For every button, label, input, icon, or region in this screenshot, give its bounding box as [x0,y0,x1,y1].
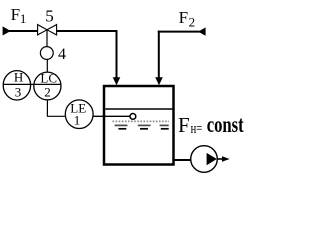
svg-text:F: F [179,8,188,27]
wire: actuator 4 to controller LC [46,59,48,72]
label 1 [74,113,81,128]
wire: pipe F1 vertical drop to tank [116,30,118,79]
dotted level line [113,120,170,122]
svg-text:1: 1 [20,11,27,26]
label LC [40,70,57,85]
svg-text:4: 4 [58,46,66,63]
wire: pipe F1 horizontal (valve to corner) [57,30,118,32]
svg-text:F: F [178,113,190,137]
arrow F2 into tank [155,77,163,85]
wire: LE to sensor inside tank [93,115,130,117]
label F1 [11,5,27,26]
outflow arrow [222,156,230,162]
svg-text:2: 2 [189,15,196,30]
label 3 [15,85,21,100]
wire: pipe F2 horizontal [158,31,200,33]
label 2 [44,84,51,99]
label F2 [179,8,196,30]
svg-text:2: 2 [44,84,51,99]
svg-text:LC: LC [40,70,57,85]
label H [14,70,23,85]
svg-text:const: const [207,112,244,137]
pump impeller triangle [207,153,217,165]
wire: pipe F1 horizontal (left of valve) [9,30,38,32]
instrument H/3 (circle) [3,71,30,100]
pump (circle) [191,146,218,173]
wire: pump outlet line [217,158,223,160]
wire: LC to LE (down and right) [47,100,65,117]
wire: valve stem to actuator 4 [46,30,48,47]
level element LE/1 (circle) [65,100,93,129]
level dashes row 2 [118,128,168,130]
svg-text:1: 1 [74,113,81,128]
label 5 [45,7,54,26]
actuator circle 4 [40,47,53,60]
svg-text:F: F [11,5,20,24]
instrument LC/2 (circle) [34,72,61,100]
wire: tank outlet pipe [174,159,192,161]
svg-text:H: H [14,70,23,85]
flow arrow into pipe F2 [198,27,206,35]
flow arrow into pipe F1 [3,26,11,35]
label 4 [58,46,66,63]
divider line through H and LC circles [3,83,61,85]
wire: pipe F2 vertical drop to tank [158,31,160,79]
label LE [70,101,86,116]
svg-text:5: 5 [45,7,54,26]
level dashes row 1 [115,124,169,126]
arrow F1 into tank [113,77,121,85]
svg-text:3: 3 [15,85,21,100]
liquid surface line [105,108,174,110]
tank [104,86,174,165]
svg-text:н=: н= [191,121,203,137]
sensor float (small circle in tank) [130,114,136,120]
label Fн= const [178,112,244,137]
valve 5 [38,25,57,35]
